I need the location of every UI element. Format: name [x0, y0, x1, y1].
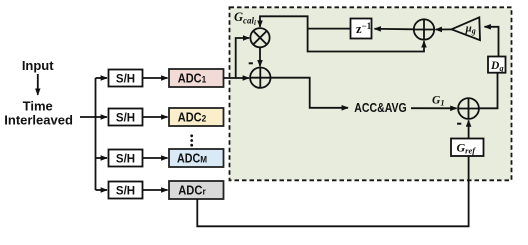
- svg-text:ADC1: ADC1: [178, 72, 207, 86]
- svg-text:S/H: S/H: [116, 113, 135, 125]
- block Gref: [451, 139, 484, 157]
- svg-text:S/H: S/H: [116, 154, 135, 166]
- multiplier X1: [250, 28, 269, 47]
- svg-text:Input: Input: [22, 58, 54, 73]
- minus sign adder2: [457, 123, 461, 125]
- wire subtractor to ACC&AVG: [271, 78, 348, 108]
- S/H block row2: [109, 109, 143, 126]
- calibration dashed box: [230, 7, 512, 180]
- ADC2 block: [169, 108, 224, 126]
- wire adder to z-1: [375, 28, 414, 31]
- wire branch row3: [96, 157, 108, 159]
- S/H block row3: [109, 150, 143, 167]
- ADC1 block: [169, 69, 224, 87]
- adder A1: [414, 19, 434, 39]
- wire ADC1 output to subtractor: [224, 77, 250, 79]
- wire branch row4: [96, 189, 108, 191]
- svg-text:S/H: S/H: [116, 74, 135, 86]
- wire Gref to adder2: [468, 120, 470, 138]
- svg-text:Time: Time: [23, 99, 53, 114]
- wire S/H4 to ADCr: [143, 189, 168, 191]
- wire ADCr to Gref: [197, 156, 468, 226]
- svg-text:ACC&AVG: ACC&AVG: [354, 101, 407, 115]
- wire adder2 output to Dg: [479, 73, 498, 109]
- ADCr block: [169, 181, 224, 199]
- wire mu out to adder: [436, 28, 452, 30]
- block Dg: [488, 57, 506, 74]
- svg-text:S/H: S/H: [116, 186, 135, 198]
- S/H block row4: [109, 182, 143, 199]
- svg-text:ADCr: ADCr: [178, 184, 206, 198]
- wire S/H3 to ADCM: [143, 157, 168, 159]
- wire top feedback to multiplier: [260, 16, 308, 28]
- ADCM block: [169, 149, 224, 167]
- wire bus vertical: [95, 78, 97, 190]
- gain mu_g: [452, 17, 481, 40]
- subtractor S1: [250, 68, 270, 88]
- wire z-1 output: [308, 28, 351, 30]
- ellipsis dots: [190, 134, 193, 146]
- wire feed to bus and into S/H row2: [80, 116, 107, 118]
- wire branch row1: [96, 77, 108, 79]
- delay z-1 block: [351, 19, 372, 39]
- input arrow: [37, 74, 39, 95]
- svg-text:ADC2: ADC2: [178, 111, 207, 125]
- wire S/H2 to ADC2: [143, 116, 168, 118]
- wire S/H1 to ADC1: [143, 77, 168, 79]
- svg-text:Interleaved: Interleaved: [4, 113, 73, 128]
- adder A2: [458, 98, 479, 119]
- wire branch up to multiplier: [236, 38, 250, 78]
- wire accumulator feedback: [308, 29, 424, 52]
- svg-text:ADCM: ADCM: [177, 152, 207, 166]
- wire multiplier to subtractor: [259, 47, 261, 66]
- minus sign subtractor: [249, 62, 253, 64]
- wire ACC&AVG to adder2: [411, 107, 457, 109]
- S/H block row1: [109, 70, 143, 87]
- wire Dg to mu input: [485, 27, 499, 57]
